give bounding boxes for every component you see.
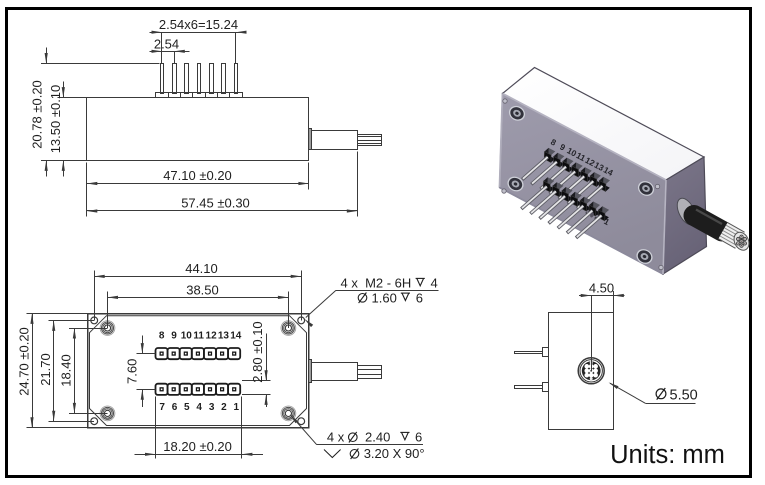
3D view: fiber bundle tip: [720, 225, 752, 252]
3D view: top face: [503, 68, 705, 181]
note: Ø1.60 depth 6: [358, 290, 423, 305]
svg-text:9: 9: [171, 331, 177, 342]
3D view: M2 screw holes: [505, 103, 657, 267]
top view: corner hole 1 (4 x Ø2.40): [91, 317, 98, 324]
3D view: edge bevels: [500, 94, 667, 275]
svg-text:4.50: 4.50: [589, 280, 614, 295]
svg-text:1.60: 1.60: [372, 290, 397, 305]
svg-text:8: 8: [159, 331, 165, 342]
end view: module body: [549, 313, 614, 430]
3D view: corner chamfer holes: [502, 99, 663, 270]
dimension 2.80 ±0.10: [242, 321, 271, 407]
end view: pin 1: [515, 348, 549, 357]
svg-text:21.70: 21.70: [38, 353, 53, 386]
top view: corner hole 4 (4 x Ø2.40): [298, 418, 305, 425]
svg-text:13: 13: [218, 331, 230, 342]
svg-text:4: 4: [431, 276, 438, 291]
top view: M2 threaded hole 3: [100, 406, 115, 421]
svg-text:6: 6: [416, 290, 423, 305]
svg-text:44.10: 44.10: [185, 261, 218, 276]
dimension 57.45 ±0.30: [87, 152, 358, 217]
svg-text:7: 7: [159, 402, 165, 413]
3D view: pin numbers 8-14: [549, 137, 615, 178]
3D view: black cable boot: [694, 210, 722, 232]
svg-text:10: 10: [181, 331, 193, 342]
svg-text:4: 4: [196, 402, 202, 413]
note: Ø5.50: [609, 382, 698, 403]
note: countersink Ø3.20 X 90°: [324, 446, 425, 461]
3D view: pin row 8-14 with headers: [522, 148, 610, 209]
side view: ferrule step: [309, 129, 312, 150]
3D view: cable ferrule ring: [673, 195, 699, 227]
3D view: front face: [500, 94, 667, 275]
dimension 18.40: [59, 328, 108, 414]
note: 4 x Ø2.40 depth 6: [290, 414, 423, 444]
3D view: pin numbers 7-1: [547, 187, 611, 227]
svg-text:4 x M2 - 6H: 4 x M2 - 6H: [341, 276, 412, 291]
svg-text:3: 3: [209, 402, 215, 413]
top view: M2 threaded hole 2: [281, 321, 296, 336]
top view: M2 threaded hole 4: [281, 406, 296, 421]
svg-text:12: 12: [206, 331, 218, 342]
dimension 2.54x6=15.24: [150, 17, 247, 63]
top view: pin pad row 7-1: [156, 384, 241, 395]
top view: corner hole 3 (4 x Ø2.40): [91, 418, 98, 425]
dimension 4.50: [579, 280, 625, 371]
side view: fiber cable: [357, 135, 381, 146]
dimension 20.78 ±0.20: [30, 48, 160, 177]
side view: strain-relief boot: [312, 131, 358, 150]
side view: module body: [87, 98, 309, 161]
svg-text:2.54: 2.54: [154, 36, 179, 51]
top view: lid plate with chamfered corners: [90, 316, 307, 426]
dimension 2.54: [150, 36, 190, 63]
top view: fiber cable: [358, 366, 382, 379]
dimension 38.50: [108, 282, 289, 328]
side view: 7 header pins: [161, 64, 238, 94]
svg-text:13.50 ±0.10: 13.50 ±0.10: [48, 85, 63, 154]
svg-text:4 x: 4 x: [327, 430, 345, 445]
top view: pin numbers 8-14: [159, 331, 242, 342]
end view: pin 2: [515, 383, 549, 392]
svg-text:14: 14: [230, 331, 242, 342]
top view: ferrule step: [309, 360, 312, 383]
dimension 13.50 ±0.10: [41, 82, 87, 177]
svg-text:6: 6: [415, 430, 422, 445]
svg-text:18.40: 18.40: [59, 354, 74, 387]
svg-text:6: 6: [172, 402, 178, 413]
svg-text:1: 1: [234, 402, 240, 413]
svg-text:11: 11: [193, 331, 204, 342]
note: 4 x M2-6H depth 4: [304, 276, 438, 328]
svg-text:Units: mm: Units: mm: [610, 441, 725, 469]
svg-text:5: 5: [184, 402, 190, 413]
svg-text:5.50: 5.50: [670, 387, 698, 403]
dimension 7.60: [125, 336, 156, 408]
top view: M2 threaded hole 1: [100, 321, 115, 336]
dimension 24.70 ±0.20: [17, 313, 88, 427]
svg-text:7.60: 7.60: [125, 359, 140, 384]
3D view: pin row 7-1 with headers: [521, 177, 609, 238]
top view: strain-relief boot: [312, 363, 358, 381]
3D view: small face hole: [589, 212, 594, 218]
dimension 18.20 ±0.20: [135, 397, 264, 459]
svg-text:18.20 ±0.20: 18.20 ±0.20: [163, 439, 232, 454]
svg-text:3.20 X 90°: 3.20 X 90°: [364, 446, 425, 461]
svg-text:47.10 ±0.20: 47.10 ±0.20: [163, 168, 232, 183]
svg-text:2: 2: [221, 402, 227, 413]
svg-text:24.70 ±0.20: 24.70 ±0.20: [17, 327, 32, 396]
svg-text:2.80 ±0.10: 2.80 ±0.10: [250, 321, 265, 382]
svg-text:2.40: 2.40: [365, 430, 390, 445]
dimension 44.10: [94, 261, 301, 320]
svg-text:20.78 ±0.20: 20.78 ±0.20: [30, 80, 45, 149]
svg-text:57.45 ±0.30: 57.45 ±0.30: [181, 196, 250, 211]
top view: module body outer outline: [88, 314, 309, 428]
svg-text:38.50: 38.50: [186, 282, 219, 297]
top view: pin pad row 8-14: [156, 348, 241, 359]
top view: pin numbers 7-1: [159, 402, 239, 413]
end view: fiber ferrule Ø5.50: [578, 358, 604, 384]
dimension 21.70: [38, 320, 94, 421]
svg-text:2.54x6=15.24: 2.54x6=15.24: [159, 17, 238, 32]
dimension 47.10 ±0.20: [87, 163, 309, 217]
side view: pin header base strip: [156, 93, 243, 98]
3D view: right face: [663, 157, 707, 274]
top view: corner hole 2 (4 x Ø2.40): [298, 317, 305, 324]
